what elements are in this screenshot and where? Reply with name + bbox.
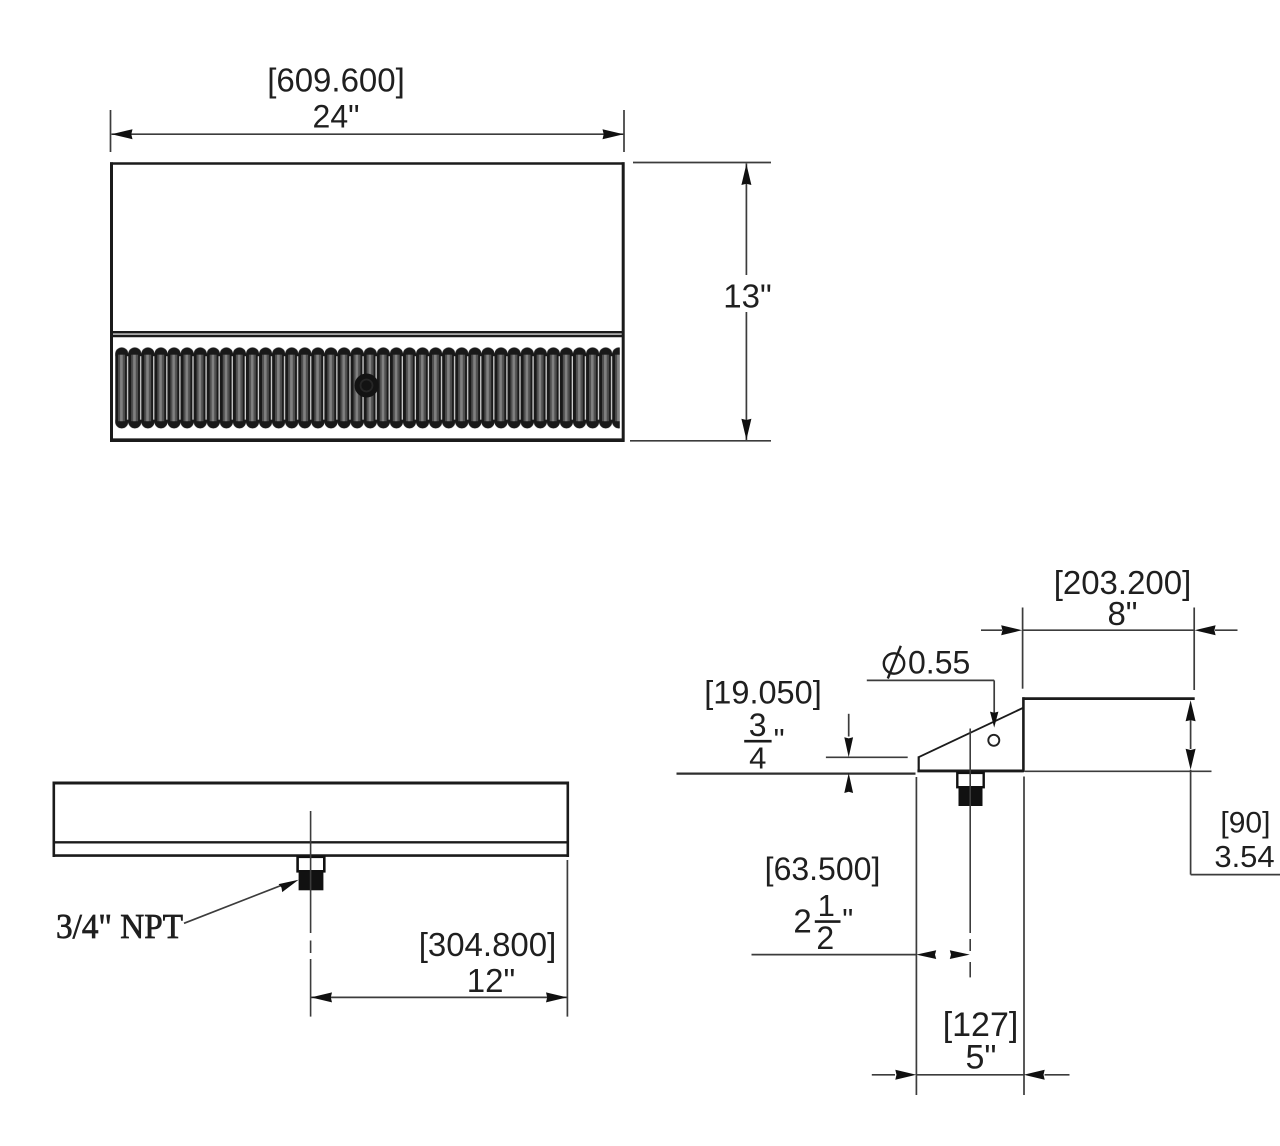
svg-text:24": 24": [313, 99, 360, 135]
svg-text:[304.800]: [304.800]: [419, 926, 557, 963]
svg-text:2: 2: [816, 920, 834, 956]
svg-text:[19.050]: [19.050]: [704, 674, 821, 710]
svg-text:": ": [842, 902, 853, 937]
svg-text:8": 8": [1107, 595, 1137, 632]
svg-text:0.55: 0.55: [908, 645, 970, 681]
svg-text:": ": [774, 722, 785, 757]
svg-text:2: 2: [793, 903, 811, 940]
svg-text:3: 3: [749, 707, 767, 743]
svg-text:3.54: 3.54: [1214, 839, 1274, 874]
svg-text:5": 5": [966, 1039, 997, 1077]
svg-text:4: 4: [749, 741, 766, 776]
svg-text:[63.500]: [63.500]: [765, 851, 881, 887]
svg-text:13": 13": [723, 278, 771, 315]
svg-text:1: 1: [818, 888, 835, 923]
svg-text:12": 12": [467, 962, 515, 999]
svg-text:3/4" NPT: 3/4" NPT: [56, 907, 183, 946]
svg-text:[609.600]: [609.600]: [267, 62, 405, 99]
svg-text:[90]: [90]: [1220, 807, 1270, 840]
